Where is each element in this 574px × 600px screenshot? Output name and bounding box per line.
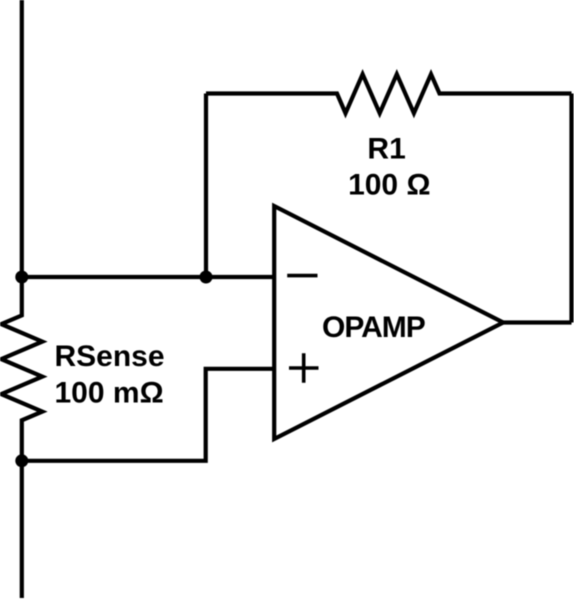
wire feedback left vertical [204,94,208,278]
node junction dot (left rail top) [15,271,28,284]
resistor R1 (top feedback wire with zigzag) [206,74,572,113]
wire output [503,320,572,324]
svg-text:100 mΩ: 100 mΩ [55,376,164,409]
svg-text:R1: R1 [367,133,405,166]
op-amp U1 triangle [274,206,503,439]
svg-text:OPAMP: OPAMP [322,311,425,344]
wire feedback right vertical [569,94,573,323]
op-amp minus symbol [287,274,317,278]
node junction dot (feedback tap) [200,271,213,284]
svg-text:RSense: RSense [55,340,165,373]
op-amp plus symbol [289,353,319,383]
resistor RSense (left vertical wire with zigzag) [1,0,42,598]
svg-text:100 Ω: 100 Ω [348,169,430,202]
node junction dot (left rail bottom) [15,454,28,467]
wire plus input (bottom jog) [22,369,274,461]
wire minus input (top horizontal from left rail to op-amp) [22,275,274,279]
